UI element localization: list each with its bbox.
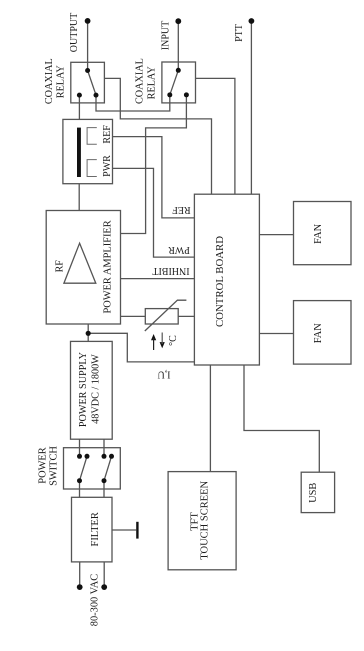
svg-text:OUTPUT: OUTPUT (69, 13, 80, 52)
wire bypass K1 right throw to K2 left throw (96, 95, 170, 111)
wire coupler PWR output to control board (113, 168, 195, 257)
wire filter to ground (112, 529, 136, 531)
wire control board to TFT touch screen (209, 365, 211, 472)
TFT touch screen display (168, 472, 236, 570)
wire coupler REF output to control board (113, 137, 195, 218)
node K2 throw contact left (167, 92, 172, 97)
wire control board to USB (244, 365, 319, 472)
svg-text:RF: RF (54, 260, 65, 273)
thermistor RT1 body (145, 309, 178, 324)
RF power amplifier PA1 (46, 211, 120, 325)
svg-text:FILTER: FILTER (90, 512, 101, 546)
node S1 pole1 open (85, 454, 90, 459)
svg-text:PWR: PWR (168, 244, 190, 255)
node K1 common contact (85, 68, 90, 73)
wire OUTPUT terminal to K1 common (87, 21, 89, 71)
power supply PS1 48VDC/1800W (71, 341, 113, 439)
wire switch to filter line 2 (103, 481, 105, 498)
svg-text:POWER AMPLIFIER: POWER AMPLIFIER (102, 220, 113, 313)
wire filter to mains terminal L (79, 562, 81, 587)
node OUTPUT terminal (85, 18, 91, 24)
coaxial relay K2 (input) (162, 62, 196, 103)
junction node A PA/PS/sense (86, 331, 91, 336)
power switch S1 (64, 448, 121, 489)
svg-text:RELAY: RELAY (56, 65, 67, 99)
wire K1 control to control board (104, 78, 211, 194)
wire PA to thermistor (121, 315, 146, 317)
svg-text:°C: °C (168, 335, 179, 346)
node S1 pole1 output (77, 478, 82, 483)
mains filter FL1 (72, 497, 113, 562)
node K1 throw contact left (77, 93, 82, 98)
svg-text:POWER: POWER (37, 447, 48, 483)
control board U1 (194, 194, 259, 365)
temperature up arrow (151, 334, 156, 340)
wire node A to control board I,U sense (88, 333, 194, 362)
wire control board to fan M2 (259, 333, 293, 335)
node mains terminal L (77, 584, 83, 590)
fan M1 (294, 202, 352, 265)
svg-text:FAN: FAN (313, 223, 324, 244)
svg-text:RELAY: RELAY (147, 66, 158, 100)
wire INPUT terminal to K2 common (177, 21, 179, 70)
wire K2 right throw to PA input (121, 95, 187, 234)
svg-text:TOUCH SCREEN: TOUCH SCREEN (200, 480, 211, 559)
svg-text:POWER SUPPLY: POWER SUPPLY (78, 351, 89, 427)
amplifier triangle symbol (64, 243, 96, 283)
node mains terminal N (101, 584, 107, 590)
temperature down arrow (160, 342, 165, 348)
node K1 throw contact right (94, 93, 99, 98)
coupler PWR coupling loop (87, 160, 97, 177)
node S1 pole2 output (102, 478, 107, 483)
node S1 pole2 open (109, 454, 114, 459)
wire PTT terminal to control board (250, 21, 252, 194)
svg-text:INPUT: INPUT (160, 21, 171, 50)
svg-text:COAXIAL: COAXIAL (44, 58, 55, 104)
svg-text:INHIBIT: INHIBIT (152, 265, 189, 276)
svg-text:PTT: PTT (234, 24, 245, 42)
node S1 pole1 input (77, 454, 82, 459)
relay K1 contact arm (88, 71, 96, 96)
wire coupler to PA (78, 184, 80, 211)
wire INHIBIT from PA to control board (121, 278, 195, 280)
relay K2 contact arm (170, 70, 179, 95)
switch S1 contact blade 1 (80, 456, 88, 480)
svg-text:PWR: PWR (102, 155, 113, 177)
wire thermistor to control board (178, 315, 194, 317)
wire PA supply to node A (87, 324, 89, 341)
wire K2 control to control board (196, 78, 235, 194)
coupler REF coupling loop (87, 128, 97, 145)
svg-text:FAN: FAN (313, 323, 324, 344)
node INPUT terminal (175, 18, 181, 24)
svg-text:REF: REF (102, 125, 113, 144)
wire filter to mains terminal N (103, 562, 105, 587)
switch S1 contact blade 2 (104, 456, 112, 480)
temperature down arrow shaft (161, 333, 163, 345)
svg-text:I,U: I,U (157, 369, 171, 380)
svg-text:SWITCH: SWITCH (48, 446, 59, 486)
wire switch to filter line 1 (79, 481, 81, 498)
fan M2 (294, 301, 352, 365)
node S1 pole2 input (102, 454, 107, 459)
directional coupler DC1 (63, 119, 113, 183)
node K2 throw contact right (184, 92, 189, 97)
node PTT terminal (249, 18, 255, 24)
svg-text:CONTROL BOARD: CONTROL BOARD (214, 236, 226, 327)
temperature up arrow shaft (153, 338, 155, 350)
wire power supply to switch pole 1 (79, 439, 81, 456)
svg-text:48VDC / 1800W: 48VDC / 1800W (90, 354, 101, 424)
svg-text:80-300 VAC: 80-300 VAC (89, 574, 100, 627)
wire control board to fan M1 (259, 234, 293, 236)
node K2 common contact (176, 68, 181, 73)
wire K1 left throw to coupler input (78, 95, 80, 119)
coupler main line bar (77, 128, 81, 177)
wire power supply to switch pole 2 (103, 439, 105, 456)
ground symbol bar (136, 522, 138, 539)
coaxial relay K1 (output) (71, 62, 105, 103)
svg-text:USB: USB (308, 483, 319, 503)
thermistor RT1 diagonal stroke (145, 300, 187, 331)
USB connector J4 (301, 472, 334, 512)
svg-text:COAXIAL: COAXIAL (134, 58, 145, 104)
svg-text:REF: REF (172, 204, 191, 215)
